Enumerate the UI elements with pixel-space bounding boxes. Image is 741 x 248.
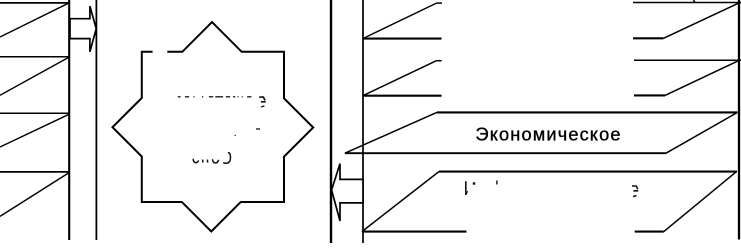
svg-text:Экономическое: Экономическое	[476, 125, 621, 145]
stray text fragment above R1 top edge	[694, 0, 695, 2]
parallelogram R2 bottom-left segment	[363, 95, 442, 97]
wall line W5 (right edge)	[738, 0, 740, 240]
parallelogram R2 right slant	[665, 61, 738, 96]
wall line W2	[95, 0, 97, 240]
left block arrow	[332, 164, 363, 221]
star faint text line 2 dash	[256, 128, 260, 130]
parallelogram R4 faint label letter е	[632, 186, 638, 197]
box B3 diagonal	[0, 114, 69, 147]
box B2 diagonal	[0, 58, 68, 96]
parallelogram R2 bottom-right segment	[634, 94, 665, 96]
parallelogram R4 right slant	[664, 172, 737, 232]
wall line W1	[68, 0, 70, 240]
star (8-point, two overlapping squares) outline	[113, 22, 314, 231]
star faint text line 3 fragments (ство)	[193, 153, 230, 163]
box B2/B3 divider	[0, 112, 69, 114]
parallelogram R3 left slant	[345, 112, 437, 153]
wall line W4	[362, 0, 364, 243]
right block arrow	[70, 6, 96, 52]
parallelogram R4 faint label fragment И	[466, 180, 497, 195]
parallelogram R1 top-right segment	[633, 2, 741, 4]
parallelogram R3 bottom edge	[345, 152, 666, 154]
star faint text line 1 letter э	[259, 97, 266, 102]
star faint text line 1 dashes	[178, 96, 252, 98]
parallelogram R1 bottom-left segment	[363, 38, 442, 40]
star faint text line 2 dot	[235, 134, 236, 136]
box B1 top edge	[0, 2, 69, 4]
star faint text small mark under э	[261, 106, 264, 107]
parallelogram R1 right slant	[664, 3, 740, 38]
parallelogram R2 top-left tick	[436, 60, 441, 62]
parallelogram R1 left slant	[363, 3, 437, 39]
box B1 diagonal	[0, 3, 69, 37]
parallelogram R4 top edge	[439, 171, 737, 173]
wall line W3	[330, 0, 332, 243]
parallelogram R2 top-right segment	[634, 59, 741, 61]
parallelogram R3 right slant	[666, 112, 738, 153]
parallelogram R4 left slant	[362, 172, 439, 232]
parallelogram R4 bottom-left segment	[362, 231, 467, 233]
box B3/B4 divider	[0, 171, 69, 173]
parallelogram R2 left slant	[363, 61, 437, 96]
parallelogram R4 bottom-right segment	[635, 231, 664, 233]
parallelogram R1 bottom-right segment	[633, 37, 664, 39]
box B1/B2 divider	[0, 56, 69, 58]
box B4 diagonal	[0, 173, 69, 216]
parallelogram R3 top edge	[437, 111, 738, 113]
parallelogram R1 top-left tick	[437, 2, 443, 4]
